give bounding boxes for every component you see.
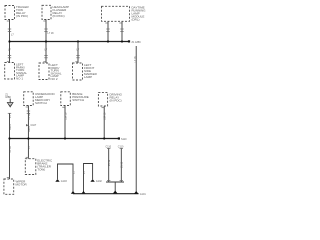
svg-text:S110: S110: [121, 138, 127, 141]
svg-text:L39 18: L39 18: [104, 112, 107, 120]
svg-text:18BK: 18BK: [5, 96, 11, 99]
switch S2 (underhood lamp mercury switch): [24, 92, 56, 106]
svg-text:G102: G102: [96, 180, 103, 183]
svg-text:NO 2: NO 2: [51, 77, 58, 81]
relay K2 (headlamp flasher relay): [42, 5, 69, 20]
svg-text:L7 18: L7 18: [134, 56, 137, 63]
bus S2 (ground distribution): [10, 137, 128, 141]
svg-text:Z1 18: Z1 18: [9, 146, 12, 153]
svg-text:(IN PDC): (IN PDC): [110, 98, 122, 102]
svg-text:18BK: 18BK: [9, 124, 12, 130]
relay K3 (driving relay in PDC): [98, 92, 122, 106]
svg-text:TOW): TOW): [37, 168, 45, 172]
wire W1b (bus S1 to lamp E1): [7, 49, 12, 62]
lamp E2 (left park/turn signal lamp no 2): [39, 63, 62, 81]
svg-text:L1 18: L1 18: [28, 113, 31, 120]
motor M1 (wiper motor): [4, 179, 28, 194]
wire W2 (K2 pin to bus S1): [43, 20, 54, 64]
wire W6 (switch S2 to bus S2 and brake box): [26, 106, 37, 159]
wire W9 (left vertical to wiper motor): [7, 113, 12, 179]
wire W10 (right vertical from bus S1 label to ground rail): [134, 46, 137, 194]
wire W2b (bus S1 to lamp E2): [43, 49, 48, 62]
svg-text:Z1 12BK: Z1 12BK: [132, 41, 142, 44]
svg-text:(IN PDC): (IN PDC): [53, 14, 65, 18]
bus S1 (park lamp feed): [10, 40, 142, 44]
svg-text:C107: C107: [31, 124, 37, 127]
wire W4 (U1 pin 1 to bus S1): [105, 21, 109, 41]
svg-text:NO 1: NO 1: [16, 77, 23, 81]
svg-text:G101: G101: [140, 193, 147, 196]
ground rail G101: [73, 191, 146, 196]
ground branch G103 (n-shape left): [55, 164, 75, 194]
lamp E1 (left park/turn signal lamp no 1): [5, 63, 28, 81]
svg-text:MOTOR: MOTOR: [16, 183, 28, 187]
wire W3 (bus S1 to marker lamp E3): [75, 42, 80, 64]
ground branch G102 (n-shape right): [81, 164, 102, 194]
wire W8 (relay K3 to bus S2): [102, 106, 107, 139]
ground G100 (stub under lamp E1): [5, 93, 13, 107]
node S2 junction dots: [8, 137, 105, 139]
svg-text:C110: C110: [106, 146, 112, 149]
svg-text:SWITCH: SWITCH: [35, 101, 47, 105]
wire W7 (switch S3 to bus S2): [62, 106, 67, 139]
svg-text:LAMP: LAMP: [84, 75, 92, 79]
module U1 (daytime running lamp module DRL): [102, 6, 147, 22]
wire W1 (K1 pin to bus S1): [7, 20, 15, 63]
wire W5 (U1 pin 2 to bus S1): [119, 21, 123, 41]
switch S3 (brake pressure switch): [61, 92, 89, 106]
brake unit B1 (electric brake trailer tow): [25, 159, 53, 175]
node S1 junction dots: [8, 40, 123, 42]
svg-text:(IN PDC): (IN PDC): [16, 14, 28, 18]
svg-text:C110: C110: [118, 146, 124, 149]
relay K1 (trailer tow relay): [5, 5, 30, 20]
svg-text:L7 18: L7 18: [48, 32, 55, 35]
svg-text:G103: G103: [61, 180, 68, 183]
svg-text:SWITCH: SWITCH: [72, 98, 84, 102]
svg-text:Z1 18: Z1 18: [121, 161, 124, 168]
svg-text:L39 18: L39 18: [64, 112, 67, 120]
connector C110 drop wires: [106, 146, 125, 194]
svg-text:(DRL): (DRL): [132, 18, 140, 22]
lamp E3 (left front side marker lamp): [73, 63, 98, 80]
svg-text:Z1 18: Z1 18: [108, 159, 111, 166]
